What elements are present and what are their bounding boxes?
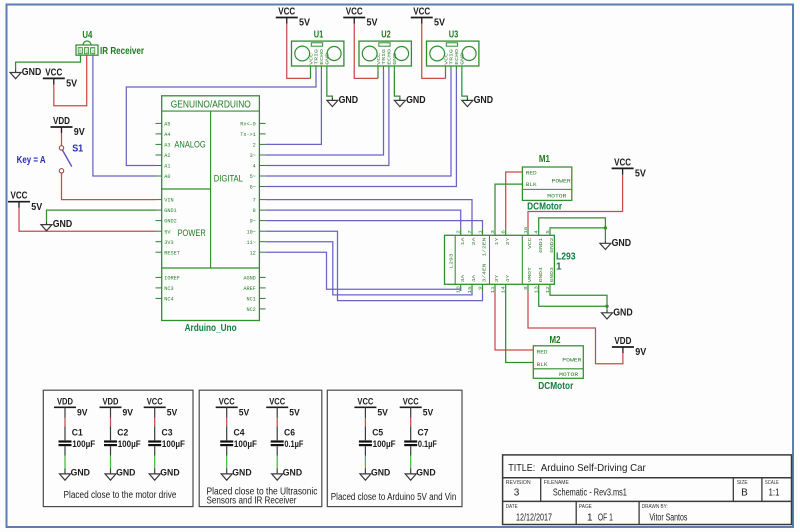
svg-text:S1: S1 (72, 144, 83, 155)
svg-text:VCC: VCC (527, 237, 533, 249)
pin 15 (4A) of L293 (471, 284, 473, 291)
svg-text:5V: 5V (299, 18, 310, 29)
pin 8 (VMOT) of L293 (527, 284, 529, 291)
microcontroller Arduino_Uno block (162, 96, 260, 334)
svg-text:0.1µF: 0.1µF (284, 439, 303, 450)
svg-text:A3: A3 (164, 143, 170, 149)
power VCC 5V (C4) (216, 397, 250, 419)
svg-text:VCC: VCC (346, 7, 363, 18)
svg-text:100µF: 100µF (373, 439, 396, 450)
wire VDD to switch (61, 133, 63, 145)
pin 10 (Arduino right) (259, 230, 265, 232)
svg-text:4: 4 (253, 164, 256, 170)
wire U2 ECHO to Arduino pin 4 (266, 70, 389, 165)
svg-text:GND: GND (325, 53, 331, 65)
svg-text:U4: U4 (82, 30, 92, 41)
svg-text:9: 9 (477, 286, 483, 290)
svg-text:GENUINO/ARDUINO: GENUINO/ARDUINO (171, 99, 251, 110)
svg-text:Schematic - Rev3.ms1: Schematic - Rev3.ms1 (553, 488, 627, 499)
pin VIN (Arduino left) (156, 199, 162, 201)
svg-text:NC3: NC3 (164, 286, 173, 292)
svg-text:7: 7 (467, 230, 473, 234)
wire Arduino 8 to L293 1A (266, 210, 461, 229)
annotation box 3 (arduino caps) (327, 390, 462, 506)
svg-text:M2: M2 (550, 335, 561, 346)
wire L293 GND4 pin 13 (539, 291, 607, 306)
wire U1 ECHO to Arduino pin 2 (266, 70, 322, 144)
pin 4 (GND1) of L293 (538, 229, 540, 236)
svg-text:VCC: VCC (219, 397, 235, 408)
svg-text:DCMotor: DCMotor (538, 380, 573, 392)
svg-text:12: 12 (250, 250, 256, 256)
svg-text:BLK: BLK (537, 362, 549, 368)
svg-text:C6: C6 (284, 428, 295, 439)
wire C3 to ground (154, 446, 156, 455)
svg-text:IOREF: IOREF (164, 276, 180, 282)
ground (C2) (105, 468, 136, 481)
svg-text:5V: 5V (367, 18, 378, 29)
pin 2 (Arduino right) (259, 143, 265, 145)
pin 6 (Arduino right) (259, 186, 265, 188)
svg-text:C4: C4 (234, 428, 246, 439)
svg-text:4Y: 4Y (505, 275, 511, 283)
svg-text:7: 7 (253, 198, 256, 204)
ground (L293 4,5) (600, 238, 631, 250)
wire VCC to C4 (226, 407, 228, 418)
svg-text:A0: A0 (164, 174, 170, 180)
svg-text:GND: GND (232, 468, 251, 479)
svg-text:U2: U2 (381, 29, 391, 40)
svg-text:VCC: VCC (413, 7, 430, 18)
pin NC1 (Arduino right) (259, 297, 265, 299)
svg-text:VDD: VDD (57, 397, 73, 408)
ground (L293 12,13) (602, 307, 633, 319)
wire VCC to C5 (364, 407, 366, 418)
svg-text:GND1: GND1 (538, 237, 544, 252)
svg-text:GND: GND (116, 468, 135, 479)
power VCC 5V (C6) (266, 397, 300, 419)
wire VDD to C1 (64, 407, 66, 418)
wire Arduino 9 to L293 1/2EN (266, 221, 483, 229)
svg-text:5V: 5V (434, 18, 445, 29)
wire U3 GND pin (462, 70, 468, 97)
pin NC3 (Arduino left) (156, 287, 162, 289)
svg-text:3A: 3A (460, 275, 466, 283)
svg-text:A2: A2 (164, 153, 170, 159)
svg-text:Arduino_Uno: Arduino_Uno (185, 323, 237, 334)
svg-text:DIGITAL: DIGITAL (214, 174, 243, 184)
svg-text:GND: GND (612, 238, 632, 249)
svg-text:FILENAME: FILENAME (544, 480, 569, 486)
wire VCC to C6 (276, 407, 278, 418)
power VCC 5V (C3) (144, 397, 178, 419)
svg-text:IR Receiver: IR Receiver (100, 45, 144, 57)
svg-text:12/12/2017: 12/12/2017 (516, 513, 552, 524)
svg-text:OF 1: OF 1 (598, 513, 613, 524)
svg-text:ANALOG: ANALOG (174, 140, 205, 150)
pin 6 (2Y) of L293 (505, 229, 507, 236)
svg-text:8: 8 (253, 208, 256, 214)
svg-text:5V: 5V (635, 169, 646, 180)
svg-text:VCC: VCC (308, 53, 314, 65)
power VCC 5V for L293 (612, 157, 647, 179)
svg-text:0.1µF: 0.1µF (418, 439, 437, 450)
pin AREF (Arduino right) (259, 287, 265, 289)
svg-text:VCC: VCC (403, 397, 419, 408)
svg-text:GND: GND (474, 95, 494, 106)
wire L293 VMOT pin 8 (528, 291, 623, 364)
svg-text:9V: 9V (635, 347, 646, 358)
svg-text:3: 3 (490, 230, 496, 234)
svg-text:Placed close to the motor driv: Placed close to the motor drive (64, 490, 177, 501)
svg-text:A5: A5 (164, 122, 170, 128)
ultrasonic sensor U3 (427, 29, 479, 70)
svg-text:GND: GND (160, 468, 179, 479)
ground (GND1) (41, 219, 72, 231)
pin NC4 (Arduino left) (156, 297, 162, 299)
wire U1 GND pin (327, 70, 333, 97)
ground (C3) (149, 468, 180, 481)
pin 3V3 (Arduino left) (156, 241, 162, 243)
pin 1 (1/2EN) of L293 (482, 229, 484, 236)
pin Rx<-0 (Arduino right) (259, 122, 265, 124)
svg-text:6: 6 (501, 230, 507, 234)
ground (C1) (60, 468, 91, 481)
svg-text:2: 2 (253, 143, 256, 149)
wire U2 TRIG to Arduino pin 3 (266, 70, 384, 155)
svg-text:2Y: 2Y (505, 237, 511, 245)
wire U3 VCC pin (422, 24, 446, 79)
svg-text:3V3: 3V3 (164, 240, 173, 246)
motor driver L293 (445, 235, 576, 284)
svg-text:NC1: NC1 (246, 297, 255, 303)
svg-text:GND: GND (371, 468, 390, 479)
svg-text:Arduino Self-Driving Car: Arduino Self-Driving Car (541, 462, 646, 474)
pin 9 (3/4EN) of L293 (482, 284, 484, 291)
pin 7 (2A) of L293 (471, 229, 473, 236)
svg-text:VCC: VCC (376, 53, 382, 65)
IR receiver U4 (76, 30, 144, 57)
svg-text:GND: GND (283, 468, 302, 479)
pin 9 (Arduino right) (259, 220, 265, 222)
wire U4 GND pin to ground (16, 55, 81, 69)
pin 12 (GND3) of L293 (549, 284, 551, 291)
svg-text:GND: GND (416, 468, 435, 479)
wire L293 VCC pin 16 (528, 174, 623, 228)
pin 10 (3A) of L293 (460, 284, 462, 291)
svg-text:M1: M1 (539, 154, 550, 165)
svg-text:U1: U1 (314, 29, 324, 40)
pin A5 (Arduino left) (156, 122, 162, 124)
svg-text:5: 5 (545, 230, 551, 234)
power VDD 9V (C2) (100, 397, 134, 419)
svg-text:5V: 5V (31, 202, 42, 213)
pin 5 (Arduino right) (259, 175, 265, 177)
svg-text:POWER: POWER (552, 179, 571, 185)
capacitor C1 (59, 428, 96, 450)
svg-text:5~: 5~ (250, 174, 256, 180)
svg-text:NC4: NC4 (164, 297, 173, 303)
pin 14 (4Y) of L293 (505, 284, 507, 291)
ground (U4) (10, 67, 41, 79)
svg-text:REVISION: REVISION (506, 480, 531, 486)
svg-text:GND: GND (613, 307, 633, 318)
svg-text:POWER: POWER (562, 357, 581, 363)
svg-text:Rx<-0: Rx<-0 (240, 122, 256, 128)
svg-text:VCC: VCC (147, 397, 163, 408)
power VDD 9V for L293 VMOT (612, 336, 647, 358)
pin 4 (Arduino right) (259, 165, 265, 167)
power VDD 9V (C1) (54, 397, 88, 419)
pin 11 (Arduino right) (259, 241, 265, 243)
svg-text:VIN: VIN (164, 198, 173, 204)
svg-text:GND: GND (460, 53, 466, 65)
ultrasonic sensor U2 (359, 29, 411, 70)
svg-text:GND2: GND2 (164, 219, 176, 225)
svg-text:9~: 9~ (250, 219, 256, 225)
capacitor C5 (359, 428, 396, 450)
capacitor C6 (271, 428, 304, 450)
svg-text:4: 4 (534, 230, 540, 234)
svg-text:GND: GND (22, 67, 42, 78)
annotation box 1 (motor drive caps) (43, 390, 193, 506)
svg-text:TRIG: TRIG (449, 49, 455, 65)
svg-text:1Y: 1Y (494, 237, 500, 245)
junction (GND3/GND4) (605, 305, 608, 308)
pin 8 (Arduino right) (259, 209, 265, 211)
svg-text:B: B (741, 488, 748, 499)
ground (U1) (327, 95, 358, 107)
wire C6 to ground (276, 446, 278, 455)
wire Arduino 7 to L293 2A (266, 200, 472, 229)
wire C1 to ground (64, 446, 66, 455)
svg-text:SIZE: SIZE (737, 480, 748, 486)
switch S1 (17, 144, 84, 174)
svg-text:L293: L293 (449, 253, 455, 268)
power VCC 5V for U4 (43, 67, 78, 89)
svg-text:A1: A1 (164, 164, 170, 170)
pin AGND (Arduino right) (259, 276, 265, 278)
svg-text:GND3: GND3 (549, 267, 555, 282)
svg-text:NC2: NC2 (246, 307, 255, 313)
svg-text:100µF: 100µF (118, 439, 141, 450)
svg-text:VDD: VDD (614, 336, 631, 347)
svg-text:SCALE: SCALE (765, 480, 779, 486)
wire L293 GND2 pin 5 (550, 227, 605, 230)
svg-text:9V: 9V (74, 127, 85, 138)
svg-text:VCC: VCC (85, 48, 89, 54)
svg-text:VCC: VCC (443, 53, 449, 65)
svg-text:1: 1 (556, 261, 562, 272)
wire VCC to C3 (154, 407, 156, 418)
pin A1 (Arduino left) (156, 165, 162, 167)
power VCC 5V (C7) (400, 397, 434, 419)
svg-text:TRIG: TRIG (314, 49, 320, 65)
pin NC2 (Arduino right) (259, 308, 265, 310)
svg-text:RESET: RESET (164, 250, 180, 256)
svg-text:BLK: BLK (526, 182, 538, 188)
svg-text:MOTOR: MOTOR (547, 193, 566, 199)
svg-text:GND: GND (79, 48, 83, 54)
pin 5V (Arduino left) (156, 230, 162, 232)
svg-text:TRIG: TRIG (381, 49, 387, 65)
pin 5 (GND2) of L293 (549, 229, 551, 236)
svg-text:Key = A: Key = A (17, 155, 46, 166)
svg-text:OUT: OUT (91, 48, 95, 54)
wire L293 GND1 pin 4 (539, 218, 606, 240)
svg-text:1/2EN: 1/2EN (482, 237, 488, 256)
wire U4 OUT to Arduino A0 (93, 55, 156, 176)
wire VCC to Arduino 5V (19, 207, 156, 231)
svg-text:2A: 2A (471, 237, 477, 245)
svg-text:3Y: 3Y (494, 275, 500, 283)
wire C4 to ground (226, 446, 228, 455)
capacitor C3 (148, 428, 185, 450)
wire L293 1Y to M1 BLK (495, 184, 522, 229)
svg-text:RED: RED (537, 350, 548, 356)
svg-text:3~: 3~ (250, 153, 256, 159)
svg-text:GND4: GND4 (538, 267, 544, 282)
svg-text:C2: C2 (117, 428, 128, 439)
svg-text:ECHO: ECHO (387, 49, 393, 65)
wire Arduino GND1 to ground (47, 210, 156, 222)
svg-text:2: 2 (456, 230, 462, 234)
wire U4 VCC pin (54, 55, 87, 106)
pin 3 (Arduino right) (259, 154, 265, 156)
svg-text:8: 8 (523, 286, 529, 290)
svg-text:ECHO: ECHO (454, 49, 460, 65)
svg-text:GND: GND (71, 468, 90, 479)
svg-text:GND: GND (339, 95, 359, 106)
ultrasonic sensor U1 (292, 29, 344, 70)
wire L293 4Y to M2 BLK (506, 291, 534, 363)
ground (C5) (360, 468, 391, 481)
svg-text:VMOT: VMOT (527, 267, 533, 282)
svg-text:GND: GND (406, 95, 426, 106)
pin 7 (Arduino right) (259, 199, 265, 201)
ground (U2) (394, 95, 425, 107)
svg-text:GND1: GND1 (164, 208, 176, 214)
svg-text:C1: C1 (72, 428, 84, 439)
title block (503, 455, 792, 525)
svg-text:5V: 5V (289, 407, 300, 418)
wire U1 TRIG to Arduino A1 (126, 70, 316, 165)
wire switch to Arduino VIN (62, 173, 156, 200)
svg-text:Vitor Santos: Vitor Santos (649, 513, 687, 524)
svg-text:ECHO: ECHO (319, 49, 325, 65)
wire L293 2Y to M1 RED (506, 172, 523, 229)
junction (GND1/GND2) (604, 226, 607, 229)
capacitor C2 (104, 428, 141, 450)
svg-text:Tx->1: Tx->1 (240, 132, 256, 138)
svg-text:100µF: 100µF (72, 439, 95, 450)
wire U3 ECHO to Arduino pin 6 (266, 70, 457, 186)
svg-text:5V: 5V (164, 229, 171, 235)
wire C2 to ground (110, 446, 112, 455)
wire U2 GND pin (394, 70, 400, 97)
svg-text:VCC: VCC (614, 157, 631, 168)
pin A3 (Arduino left) (156, 143, 162, 145)
svg-text:1A: 1A (460, 237, 466, 245)
wire U1 VCC pin (287, 24, 311, 79)
svg-text:9V: 9V (123, 407, 134, 418)
svg-text:C3: C3 (162, 428, 173, 439)
motor M2 DCMotor (533, 335, 583, 392)
motor M1 DCMotor (522, 154, 571, 213)
svg-text:VCC: VCC (278, 7, 295, 18)
capacitor C4 (220, 428, 257, 450)
pin 16 (VCC) of L293 (527, 229, 529, 236)
svg-text:11~: 11~ (246, 240, 255, 246)
svg-text:VCC: VCC (45, 67, 62, 78)
svg-text:AGND: AGND (243, 276, 255, 282)
svg-text:3: 3 (514, 488, 520, 499)
svg-text:5V: 5V (423, 407, 434, 418)
ground (C7) (405, 468, 436, 481)
wire VDD to C2 (110, 407, 112, 418)
power VCC 5V for U1 (276, 7, 311, 29)
pin A0 (Arduino left) (156, 175, 162, 177)
svg-text:Placed close to Arduino 5V and: Placed close to Arduino 5V and Vin (331, 492, 457, 503)
pin 11 (3Y) of L293 (494, 284, 496, 291)
svg-text:PAGE: PAGE (579, 504, 592, 510)
pin 13 (GND4) of L293 (538, 284, 540, 291)
svg-text:VCC: VCC (269, 397, 285, 408)
svg-text:DATE: DATE (506, 504, 518, 510)
wire Arduino 10 to L293 3/4EN (266, 231, 483, 300)
svg-text:5V: 5V (239, 407, 250, 418)
wire Arduino 12 to L293 3A (266, 252, 461, 291)
svg-text:1:1: 1:1 (769, 488, 780, 499)
svg-text:5V: 5V (377, 407, 388, 418)
power VDD 9V for S1 (51, 116, 86, 138)
svg-text:10~: 10~ (246, 229, 255, 235)
svg-text:VCC: VCC (357, 397, 373, 408)
svg-text:1: 1 (587, 513, 593, 524)
wire C5 to ground (364, 446, 366, 455)
svg-text:VCC: VCC (11, 191, 28, 202)
pin A2 (Arduino left) (156, 154, 162, 156)
power VCC 5V for U2 (343, 7, 378, 29)
svg-text:3/4EN: 3/4EN (482, 263, 488, 282)
wire U3 TRIG to Arduino pin 5 (266, 70, 451, 176)
svg-text:DRAWN BY:: DRAWN BY: (642, 504, 668, 510)
svg-text:5V: 5V (66, 79, 77, 90)
svg-text:4A: 4A (471, 275, 477, 283)
svg-text:Sensors and IR Receiver: Sensors and IR Receiver (207, 496, 298, 507)
wire U2 VCC pin (354, 24, 378, 79)
power VCC 5V for U3 (411, 7, 446, 29)
svg-text:POWER: POWER (178, 228, 206, 238)
ground (C4) (221, 468, 252, 481)
svg-text:100µF: 100µF (162, 439, 185, 450)
pin RESET (Arduino left) (156, 251, 162, 253)
ground (C6) (272, 468, 303, 481)
annotation box 2 (sensor caps) (199, 390, 322, 506)
pin Tx->1 (Arduino right) (259, 133, 265, 135)
pin 3 (1Y) of L293 (494, 229, 496, 236)
svg-text:U3: U3 (449, 29, 459, 40)
svg-text:1: 1 (477, 230, 483, 234)
svg-text:9V: 9V (77, 407, 88, 418)
pin 12 (Arduino right) (259, 251, 265, 253)
svg-text:C7: C7 (418, 428, 429, 439)
svg-text:GND: GND (392, 53, 398, 65)
svg-text:RED: RED (526, 171, 537, 177)
pin GND1 (Arduino left) (156, 209, 162, 211)
power VCC 5V left (8, 191, 43, 213)
wire L293 3Y to M2 RED (495, 291, 533, 350)
